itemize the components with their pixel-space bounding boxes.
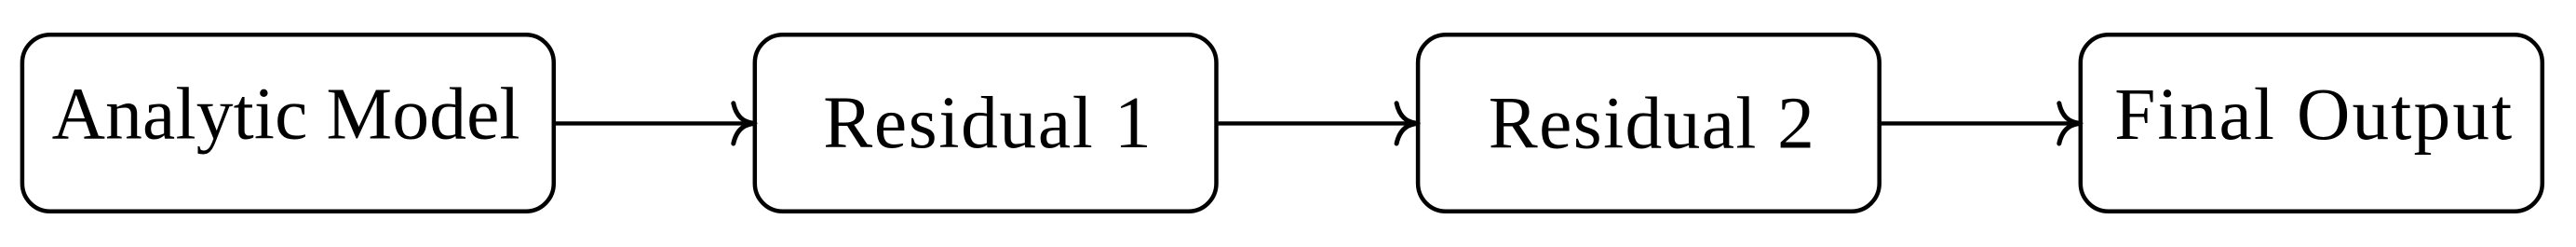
wire: arrow Residual 2 to Final Output <box>1881 103 2081 144</box>
block: Residual 1 box <box>755 34 1217 212</box>
block: Analytic Model box <box>22 34 554 212</box>
block: Final Output box <box>2081 34 2542 212</box>
wire: arrow Analytic Model to Residual 1 <box>556 103 755 144</box>
wire: arrow Residual 1 to Residual 2 <box>1219 103 1419 144</box>
svg-text:Final Output: Final Output <box>2114 74 2512 156</box>
block: Residual 2 box <box>1418 34 1880 212</box>
svg-text:Residual 2: Residual 2 <box>1489 82 1814 164</box>
svg-text:Residual 1: Residual 1 <box>823 82 1152 164</box>
svg-text:Analytic Model: Analytic Model <box>52 74 520 156</box>
